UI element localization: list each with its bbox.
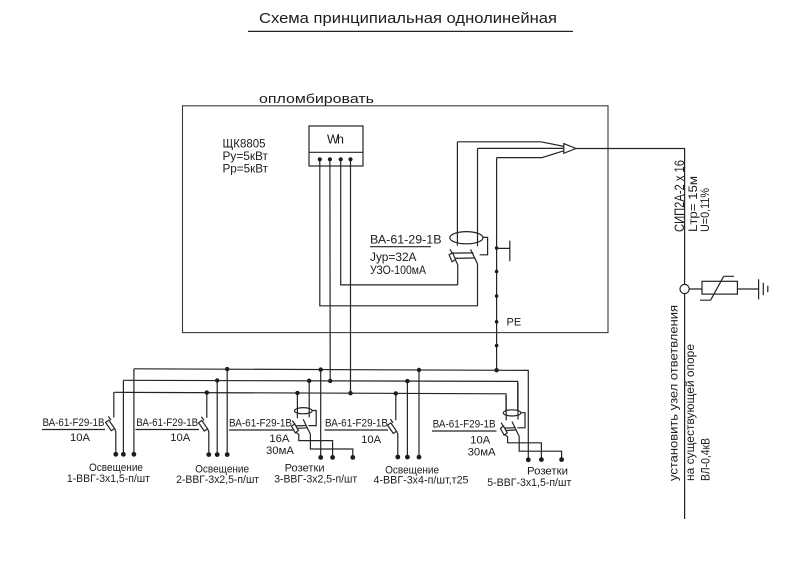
supply arrowhead bbox=[564, 144, 576, 154]
enclosure box ЩК8805 bbox=[183, 106, 609, 333]
group4 cable dots bbox=[405, 455, 410, 460]
svg-text:опломбировать: опломбировать bbox=[259, 92, 374, 106]
breaker QF2 label underline bbox=[136, 429, 200, 431]
svg-text:ЩК8805: ЩК8805 bbox=[223, 138, 266, 150]
breaker QF2 group2 bbox=[199, 393, 212, 457]
svg-text:10А: 10А bbox=[70, 432, 91, 444]
svg-text:2-ВВГ-3х2,5-п/шт: 2-ВВГ-3х2,5-п/шт bbox=[176, 474, 259, 486]
N-PE bond terminal bbox=[497, 241, 510, 261]
group2 N drop wire bbox=[216, 381, 218, 455]
wire meter terminal 1 to RCD pole2 output bbox=[320, 161, 478, 306]
svg-text:Схема принципиальная однолиней: Схема принципиальная однолинейная bbox=[259, 11, 557, 27]
RCBO QF5 label underline bbox=[432, 430, 497, 432]
title underline bbox=[248, 30, 573, 32]
wire meter terminal 2 down to N rail bbox=[329, 161, 331, 381]
group5 PE cable dot bbox=[526, 457, 531, 462]
meter terminal dots 1-4 bbox=[318, 157, 353, 161]
wire from arrow to pole branch bbox=[576, 149, 685, 285]
svg-text:16А: 16А bbox=[269, 433, 290, 445]
svg-text:Ру=5кВт: Ру=5кВт bbox=[223, 151, 269, 163]
group1 PE drop wire bbox=[133, 369, 135, 455]
group3 PE cable dot bbox=[318, 455, 323, 460]
wire meter terminal 3 to RCD pole1 output bbox=[341, 161, 458, 285]
surge arrester leads bbox=[689, 288, 758, 290]
junction dot L rail feed bbox=[348, 391, 352, 395]
svg-text:10А: 10А bbox=[470, 435, 491, 447]
svg-text:4-ВВГ-3х4-п/шт,т25: 4-ВВГ-3х4-п/шт,т25 bbox=[374, 475, 469, 487]
node branch circle on pole bbox=[680, 284, 689, 293]
RCBO QF5 group5 bbox=[500, 383, 564, 462]
group4 tap junction dots bbox=[394, 391, 398, 395]
RCD label underline bbox=[370, 246, 431, 248]
svg-text:Рр=5кВт: Рр=5кВт bbox=[223, 164, 269, 176]
group3 PE drop wire bbox=[320, 370, 322, 458]
svg-text:ВА-61-29-1В: ВА-61-29-1В bbox=[370, 233, 442, 247]
group3 tap junction dots bbox=[295, 391, 299, 395]
wire PE up to supply arrow bbox=[497, 151, 564, 158]
wire overhead line drop below branch bbox=[684, 294, 686, 519]
svg-text:30мА: 30мА bbox=[468, 447, 497, 459]
PE conductor dash-dot vertical bbox=[495, 158, 499, 371]
breaker QF1 ВА-61-F29-1В group1 bbox=[106, 392, 119, 456]
breaker QF1 label bbox=[43, 417, 105, 444]
svg-text:УЗО-100мА: УЗО-100мА bbox=[370, 263, 426, 277]
svg-text:ВА-61-F29-1В: ВА-61-F29-1В bbox=[136, 417, 198, 429]
wire RCD pole1 up to supply arrow bbox=[457, 142, 563, 147]
breaker QF4 label underline bbox=[325, 429, 389, 431]
wire RCD pole2 up to supply arrow bbox=[478, 147, 564, 149]
PE rail bbox=[134, 369, 528, 460]
svg-text:U=0,11%: U=0,11% bbox=[700, 188, 712, 232]
circuit 1 label Освещение 1-ВВГ-3х1,5-п/шт bbox=[67, 462, 150, 485]
circuit 3 label Розетки 3-ВВГ-3х2,5-п/шт bbox=[274, 462, 357, 485]
junction dot N rail feed bbox=[328, 379, 332, 383]
group2 PE drop wire bbox=[226, 369, 228, 455]
svg-text:5-ВВГ-3х1,5-п/шт: 5-ВВГ-3х1,5-п/шт bbox=[487, 477, 571, 489]
svg-text:ВА-61-F29-1В: ВА-61-F29-1В bbox=[43, 417, 105, 429]
RCBO QF3 ВА-61-F29-1В 16А 30мА group3 bbox=[292, 381, 356, 460]
RCBO QF3 label underline bbox=[229, 429, 294, 431]
N rail bbox=[123, 380, 517, 410]
svg-text:Розетки: Розетки bbox=[527, 465, 568, 477]
circuit 4 label Освещение 4-ВВГ-3х4-п/шт,т25 bbox=[374, 464, 469, 486]
L rail bbox=[114, 392, 506, 412]
circuit 5 label Розетки 5-ВВГ-3х1,5-п/шт bbox=[487, 465, 571, 489]
svg-text:ВЛ-0,4кВ: ВЛ-0,4кВ bbox=[701, 438, 713, 481]
svg-text:ВА-61-F29-1В: ВА-61-F29-1В bbox=[325, 418, 388, 430]
group4 PE drop wire bbox=[418, 370, 420, 457]
breaker QF4 group4 bbox=[388, 395, 401, 459]
breaker QF1 label underline bbox=[42, 429, 105, 431]
group4 N drop wire bbox=[406, 381, 408, 457]
wire meter terminal 4 down to L rail bbox=[350, 161, 352, 393]
meter Wh bbox=[309, 126, 363, 166]
svg-text:ВА-61-F29-1В: ВА-61-F29-1В bbox=[229, 418, 292, 430]
breaker QF2 label bbox=[136, 417, 198, 444]
svg-text:PE: PE bbox=[507, 316, 522, 328]
RCBO QF3 label bbox=[229, 418, 295, 458]
svg-text:Wh: Wh bbox=[327, 133, 344, 147]
panel label ЩК8805 Ру=5кВт Рр=5кВт bbox=[223, 138, 269, 175]
group1 N drop wire bbox=[122, 380, 124, 454]
RCD label ВА-61-29-1В Jур=32А УЗО-100мА bbox=[370, 233, 442, 277]
junction dot PE to PE rail bbox=[494, 368, 498, 372]
ground electrode bbox=[759, 279, 768, 299]
group2 tap junction dots bbox=[205, 390, 209, 394]
svg-text:1-ВВГ-3х1,5-п/шт: 1-ВВГ-3х1,5-п/шт bbox=[67, 473, 150, 485]
svg-text:10А: 10А bbox=[361, 434, 382, 446]
svg-text:ВА-61-F29-1В: ВА-61-F29-1В bbox=[433, 419, 496, 431]
surge arrester varistor bbox=[700, 276, 737, 300]
breaker QF4 label bbox=[325, 418, 388, 447]
RCD main breaker ВА-61-29-1В bbox=[449, 142, 488, 306]
group1 cable dots bbox=[121, 452, 126, 457]
svg-text:на существующей опоре: на существующей опоре bbox=[685, 344, 697, 481]
circuit 2 label Освещение 2-ВВГ-3х2,5-п/шт bbox=[176, 463, 259, 486]
group2 cable dots bbox=[215, 452, 220, 457]
svg-text:10А: 10А bbox=[170, 432, 191, 444]
svg-text:СИП2А-2 х 16: СИП2А-2 х 16 bbox=[672, 160, 687, 232]
RCBO QF5 label bbox=[433, 419, 497, 459]
svg-text:установить узел ответвления: установить узел ответвления bbox=[669, 305, 681, 481]
svg-text:30мА: 30мА bbox=[266, 445, 295, 457]
svg-text:3-ВВГ-3х2,5-п/шт: 3-ВВГ-3х2,5-п/шт bbox=[274, 474, 357, 486]
svg-text:Lтр= 15м: Lтр= 15м bbox=[688, 176, 700, 232]
